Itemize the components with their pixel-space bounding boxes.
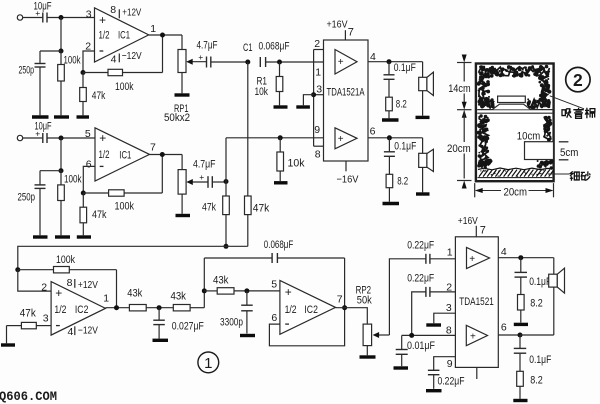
pin 8 wire (402, 334, 456, 336)
svg-text:7: 7 (348, 27, 354, 39)
svg-text:8: 8 (446, 324, 452, 336)
ground (32, 115, 49, 118)
ground (77, 115, 90, 118)
node pin 8 (409, 333, 414, 338)
svg-text:6: 6 (370, 125, 376, 137)
ground (382, 118, 399, 121)
svg-text:4.7μF: 4.7μF (197, 39, 218, 51)
input terminal IN-R (17, 135, 22, 140)
dimension 20cm (width) (474, 183, 476, 197)
svg-text:+: + (99, 13, 106, 27)
svg-text:100k: 100k (56, 254, 75, 266)
fine sand layer (478, 168, 552, 170)
amp A inside TDA1521A (335, 50, 357, 75)
capacitor 0.068uF (CH1) (259, 57, 261, 67)
svg-text:+16V: +16V (458, 215, 478, 227)
svg-text:4: 4 (501, 246, 507, 258)
resistor 43k #2 (173, 305, 190, 311)
svg-text:+: + (55, 286, 62, 300)
svg-text:7: 7 (150, 142, 156, 154)
svg-text:0.01μF: 0.01μF (407, 340, 435, 352)
node output CH2 (160, 152, 165, 157)
capacitor 0.1uF (zobel C) (520, 258, 522, 273)
resistor 100k (CH1 feedback) (83, 72, 108, 74)
pin column TDA1521A (313, 50, 315, 147)
wire (feedback up) (162, 35, 164, 73)
node bias CH1 (59, 49, 64, 54)
node output C (518, 255, 523, 260)
node 0.027uF (157, 305, 162, 310)
svg-text:3: 3 (446, 302, 452, 314)
wire (to pin 2) (18, 270, 51, 291)
svg-text:20cm: 20cm (447, 143, 471, 155)
absorbing cotton lining (lower chamber) (485, 156, 488, 159)
svg-text:0.22μF: 0.22μF (407, 272, 434, 284)
ground (383, 202, 400, 205)
svg-text:43k: 43k (127, 287, 142, 299)
IC TDA1521A box (324, 40, 369, 161)
svg-text:250p: 250p (18, 192, 36, 204)
ground stub (pin 5) (476, 367, 478, 379)
ground (1, 343, 15, 346)
svg-text:3300p: 3300p (220, 316, 243, 328)
amp D inside TDA1521 (466, 325, 487, 345)
pin 4 output wire (368, 61, 423, 63)
resistor 10k (CH2) (279, 138, 281, 152)
node feedback CH1 (81, 70, 86, 75)
wire (23, 137, 43, 139)
speaker BL1 (422, 62, 424, 78)
svg-text:4: 4 (111, 53, 117, 65)
label xisha (fine sand) (548, 173, 569, 175)
svg-text:+: + (469, 254, 475, 265)
svg-text:250p: 250p (19, 65, 35, 77)
svg-text:10μF: 10μF (34, 1, 52, 13)
resistor 100k (CH2 bias) (60, 171, 62, 185)
pin 6 output wire (368, 137, 423, 139)
svg-text:7: 7 (480, 224, 486, 236)
svg-text:8.2: 8.2 (397, 175, 408, 187)
ground (176, 214, 191, 217)
node mix CH2 (224, 179, 229, 184)
svg-text:+: + (99, 131, 106, 145)
svg-text:1/2: 1/2 (99, 149, 110, 161)
wire (up to feedback) (203, 258, 205, 308)
resistor 43k #3 (204, 290, 217, 292)
svg-text:50kx2: 50kx2 (164, 112, 190, 124)
node IC2b output (342, 305, 347, 310)
svg-text:10cm: 10cm (517, 131, 541, 143)
svg-text:0.027μF: 0.027μF (172, 321, 204, 333)
resistor 43k #1 (129, 305, 146, 311)
svg-text:0.068μF: 0.068μF (259, 40, 290, 52)
node pin 3 ground (311, 92, 316, 97)
enclosure outer box (476, 64, 554, 182)
svg-text:6: 6 (86, 159, 92, 171)
wire (181, 35, 183, 50)
resistor 8.2 (zobel D) (517, 371, 524, 386)
ground (416, 192, 430, 195)
wire (bridge to speaker) (520, 334, 554, 336)
ground (274, 105, 288, 108)
svg-text:3: 3 (316, 84, 322, 96)
node output D (518, 333, 523, 338)
resistor 47k (CH1 mix) (247, 62, 249, 196)
node mix bus (224, 244, 229, 249)
node 43k-3 (202, 288, 207, 293)
svg-text:43k: 43k (171, 290, 187, 302)
wire (up to pin 9 line) (225, 138, 227, 196)
ground (55, 235, 70, 238)
circled 2 (566, 67, 590, 91)
op-amp U2B 1/2 IC2 (280, 281, 336, 335)
svg-text:9: 9 (447, 358, 453, 370)
capacitor 0.01uF (401, 335, 403, 349)
wire (40, 170, 61, 172)
wire (feedback up) (161, 155, 163, 194)
resistor 8.2 (zobel B) (386, 174, 393, 187)
svg-text:8: 8 (110, 4, 116, 16)
svg-text:1: 1 (204, 355, 212, 372)
resistor 8.2 (zobel A) (386, 97, 393, 111)
capacitor 10uF (CH1 input) (42, 13, 44, 23)
ground (514, 323, 528, 326)
ground (240, 334, 255, 337)
wire (output) (150, 154, 183, 156)
svg-text:1/2: 1/2 (54, 304, 66, 316)
svg-text:TDA1521: TDA1521 (459, 296, 494, 308)
wire (output) (149, 34, 182, 36)
divider panel (477, 109, 552, 111)
wire (23, 17, 43, 19)
svg-text:47k: 47k (92, 90, 106, 102)
wire (60, 138, 62, 171)
svg-text:IC2: IC2 (75, 304, 89, 316)
wire (pin 6 loop) (269, 308, 344, 346)
wire (47, 17, 95, 19)
svg-text:TDA1521A: TDA1521A (327, 87, 365, 99)
svg-text:2: 2 (41, 282, 47, 294)
op-amp U2A 1/2 IC2 (51, 282, 105, 336)
svg-text:4.7μF: 4.7μF (193, 158, 216, 170)
capacitor 0.068uF (IC2b feedback) (204, 257, 272, 259)
svg-text:2: 2 (573, 70, 583, 90)
ground (33, 235, 48, 238)
node 10k top (278, 135, 283, 140)
resistor 100k (CH2 feedback) (83, 192, 108, 194)
svg-text:47k: 47k (253, 203, 270, 215)
amp C inside TDA1521 (467, 247, 490, 268)
input terminal IN-L (17, 15, 22, 20)
node output A (387, 59, 392, 64)
wire (60, 18, 62, 52)
svg-text:2: 2 (446, 281, 452, 293)
svg-text:5cm: 5cm (560, 147, 578, 159)
svg-text:0.22μF: 0.22μF (407, 239, 434, 251)
wire (mix bus) (18, 246, 248, 269)
svg-text:−12V: −12V (78, 325, 98, 337)
pin 4 output wire (498, 257, 554, 259)
ground (513, 399, 527, 402)
capacitor 0.22uF #1 (425, 254, 427, 264)
IC TDA1521 box (455, 237, 498, 368)
svg-text:5: 5 (85, 128, 91, 140)
svg-text:7: 7 (337, 294, 343, 306)
node output B (387, 135, 392, 140)
resistor R1 10k (279, 62, 281, 77)
ground (175, 93, 190, 96)
ground (153, 339, 169, 342)
svg-text:0.1μF: 0.1μF (394, 62, 416, 74)
node input CH1 (59, 15, 64, 20)
node bias CH2 (59, 168, 64, 173)
potentiometer RP1a (178, 50, 186, 73)
svg-text:IC2: IC2 (304, 304, 318, 316)
svg-text:20cm: 20cm (504, 186, 528, 198)
svg-text:100k: 100k (64, 55, 81, 67)
capacitor 250p (CH2) (39, 171, 41, 185)
capacitor 0.22uF #2 (412, 292, 426, 336)
wire (RP2 wiper to pin 1) (389, 259, 426, 335)
capacitor 0.1uF (zobel B) (388, 138, 390, 152)
dimension 20cm (height) (463, 112, 465, 142)
ground (394, 366, 409, 369)
svg-text:8.2: 8.2 (396, 98, 407, 110)
svg-text:47k: 47k (20, 308, 36, 320)
svg-text:10k: 10k (255, 86, 269, 98)
speaker unit on divider (498, 96, 526, 102)
resistor 100k (CH1 bias) (60, 51, 62, 65)
svg-text:0.1μF: 0.1μF (529, 276, 551, 288)
svg-text:0.1μF: 0.1μF (529, 354, 551, 366)
svg-text:8.2: 8.2 (530, 374, 543, 386)
svg-text:IC1: IC1 (119, 150, 131, 162)
svg-text:2: 2 (314, 38, 320, 50)
node C1 (245, 60, 250, 65)
dimension 14cm (463, 63, 465, 82)
svg-text:6: 6 (271, 312, 277, 324)
svg-text:5: 5 (271, 279, 277, 291)
svg-text:43k: 43k (213, 274, 229, 286)
potentiometer RP1b (178, 170, 186, 195)
resistor 47k (CH1) (82, 73, 84, 88)
potentiometer RP2 50k (363, 324, 372, 346)
svg-text:+12V: +12V (122, 7, 141, 19)
capacitor 3300p (246, 291, 248, 305)
svg-text:0.22μF: 0.22μF (438, 375, 465, 387)
resistor 8.2 (zobel C) (518, 295, 525, 311)
resistor 47k (IC2a input) (36, 325, 51, 327)
wire (feedback down) (344, 258, 346, 308)
wire (pin 6 to feedback node) (83, 166, 95, 193)
capacitor 10uF (CH2 input) (42, 133, 44, 143)
svg-text:100k: 100k (115, 201, 135, 213)
-16V stub (345, 161, 347, 171)
svg-text:8: 8 (67, 277, 73, 289)
svg-text:1/2: 1/2 (99, 30, 110, 42)
svg-text:4: 4 (370, 51, 376, 63)
pin 3 ground (434, 313, 456, 323)
svg-text:−12V: −12V (122, 50, 142, 62)
svg-text:10μF: 10μF (35, 121, 52, 133)
wire (40, 50, 61, 52)
label xiyinmian (absorbing cotton) (550, 96, 584, 109)
op-amp U1B 1/2 IC1 (95, 128, 150, 181)
svg-text:100k: 100k (115, 81, 134, 93)
capacitor 0.1uF (zobel D) (519, 335, 521, 348)
svg-text:14cm: 14cm (448, 83, 471, 95)
pin 6 output wire (498, 334, 520, 336)
node mix input (15, 267, 20, 272)
ground (360, 355, 376, 358)
5cm ticks (559, 141, 569, 143)
resistor 47k (CH2 mix) (223, 196, 230, 215)
wire (pin 2 to feedback node) (83, 51, 95, 73)
node 43k-1 (114, 305, 119, 310)
port rectangle (525, 142, 554, 160)
svg-text:−16V: −16V (337, 173, 359, 185)
pin 9 and capacitor 0.22uF #3 (434, 357, 456, 371)
ground (426, 389, 442, 392)
svg-text:+: + (470, 331, 476, 342)
capacitor 0.027uF (158, 308, 160, 321)
svg-text:8.2: 8.2 (530, 297, 543, 309)
capacitor 250p (CH1) (39, 51, 41, 64)
svg-text:+: + (338, 57, 344, 68)
wire (feedback down) (116, 270, 118, 308)
svg-text:+: + (199, 172, 204, 182)
svg-text:0.1μF: 0.1μF (394, 141, 416, 153)
wire (output to RP2) (336, 308, 368, 324)
ground (77, 235, 91, 238)
svg-text:+: + (198, 52, 203, 62)
speaker BL2 (422, 138, 424, 154)
svg-text:3: 3 (43, 313, 49, 325)
svg-text:Q606.COM: Q606.COM (0, 390, 57, 404)
ground (pin 3) (303, 95, 313, 106)
node 3300p (244, 288, 249, 293)
op-amp U1A 1/2 IC1 (95, 8, 149, 62)
resistor 100k (IC2a feedback) (18, 269, 54, 271)
svg-text:+12V: +12V (78, 279, 98, 291)
svg-text:+: + (338, 134, 344, 145)
ground (54, 115, 69, 118)
svg-text:9: 9 (314, 124, 320, 136)
pin 7 +16V lead (475, 226, 477, 237)
absorbing cotton lining (upper chamber) (486, 73, 490, 77)
ground (416, 116, 430, 119)
svg-text:1: 1 (315, 67, 321, 79)
svg-text:47k: 47k (92, 209, 107, 221)
svg-text:IC1: IC1 (118, 30, 130, 42)
svg-text:3: 3 (86, 8, 92, 20)
resistor 47k (CH2) (82, 193, 84, 207)
capacitor 0.1uF (zobel A) (388, 62, 390, 75)
svg-text:1/2: 1/2 (285, 304, 297, 316)
svg-text:50k: 50k (357, 294, 372, 306)
svg-text:C1: C1 (243, 42, 253, 54)
wire (IC2a output) (106, 307, 130, 309)
wire (47, 137, 95, 139)
svg-text:6: 6 (501, 322, 507, 334)
svg-text:10k: 10k (288, 158, 305, 170)
pin 7 +16V lead (344, 30, 346, 40)
svg-text:0.068μF: 0.068μF (264, 239, 294, 251)
ground (274, 181, 288, 184)
svg-text:+: + (285, 285, 292, 299)
speaker BL3 (subwoofer) (553, 258, 555, 275)
amp B inside TDA1521A (335, 128, 357, 149)
wire (to TDA1521A pin 9) (226, 137, 324, 139)
circled 1 (198, 352, 219, 373)
svg-text:1: 1 (150, 23, 156, 35)
node output CH1 (160, 33, 165, 38)
node R1 top (277, 60, 282, 65)
wire (181, 155, 183, 170)
svg-text:100k: 100k (64, 174, 82, 186)
svg-text:1: 1 (447, 246, 453, 258)
svg-text:+16V: +16V (327, 19, 348, 31)
node input CH2 (59, 136, 64, 141)
node feedback CH2 (81, 191, 86, 196)
svg-text:4: 4 (68, 326, 74, 338)
svg-text:8: 8 (315, 148, 321, 160)
svg-text:1: 1 (103, 293, 109, 305)
svg-text:47k: 47k (202, 202, 216, 214)
